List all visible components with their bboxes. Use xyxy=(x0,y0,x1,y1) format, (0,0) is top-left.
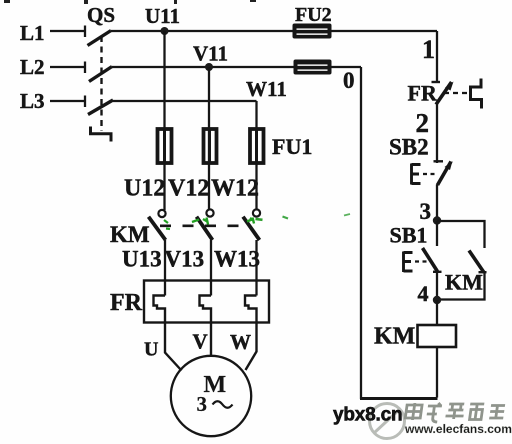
wire L2 to fuse and node 0 corner xyxy=(112,66,361,68)
FR heater element 2 xyxy=(200,296,212,357)
FR trip lever symbol xyxy=(471,79,482,109)
wire SB1 to node 4 xyxy=(436,272,438,301)
KM main contact 3 fixed circle xyxy=(253,209,260,216)
svg-text:3: 3 xyxy=(197,392,208,416)
svg-text:KM: KM xyxy=(374,324,415,350)
FR top terminal tick xyxy=(432,81,441,83)
svg-text:FU1: FU1 xyxy=(272,134,312,159)
KM main contact 3 blade xyxy=(243,217,260,240)
svg-text:2: 2 xyxy=(416,108,430,138)
watermark elecfans logo circle xyxy=(370,404,405,439)
svg-text:FU2: FU2 xyxy=(295,4,332,26)
motor tilde mark xyxy=(213,401,233,408)
fuse FU1 pole 1 body xyxy=(158,129,172,163)
FR NC contact blade xyxy=(436,82,452,105)
svg-text:QS: QS xyxy=(87,3,115,27)
QS pole 1 fixed terminal tick xyxy=(84,26,86,38)
SB2 actuator E xyxy=(412,164,421,185)
coil KM body xyxy=(418,325,457,347)
FR heater element 3 xyxy=(245,296,257,371)
SB1 NO blade xyxy=(423,248,438,272)
SB2 dashed link xyxy=(423,173,436,175)
svg-text:V11: V11 xyxy=(193,42,228,66)
wire KM aux to node 4 xyxy=(437,272,485,300)
top edge crop artifacts xyxy=(4,0,256,4)
svg-text:0: 0 xyxy=(343,68,355,93)
svg-text:1: 1 xyxy=(422,35,435,64)
QS pole 3 blade xyxy=(88,100,113,115)
wire loop left vertical (node 0) xyxy=(360,67,362,399)
wire L3 incoming xyxy=(50,100,84,102)
svg-text:L3: L3 xyxy=(20,89,45,113)
svg-text:L1: L1 xyxy=(20,21,45,45)
QS linkage dashed line xyxy=(100,36,102,131)
svg-text:FR: FR xyxy=(408,81,438,106)
FR contact dashed link xyxy=(444,92,468,94)
fuse FU2 pole 2 body xyxy=(294,60,332,75)
KM main contact 2 fixed circle xyxy=(206,209,213,216)
SB1 bottom terminal tick xyxy=(433,271,442,273)
svg-text:FR: FR xyxy=(110,290,143,316)
svg-text:U12: U12 xyxy=(124,176,165,202)
wire U column upper xyxy=(163,31,165,210)
fuse FU2 pole 1 body xyxy=(293,24,332,39)
svg-text:V: V xyxy=(193,330,208,354)
wire control right column top xyxy=(436,31,438,82)
watermark chinese glyphs xyxy=(405,403,506,422)
FR blade arrow tip xyxy=(445,82,454,91)
svg-text:U: U xyxy=(144,339,158,361)
wire L1 to FU2 and node 1 corner xyxy=(111,30,437,32)
svg-text:V12: V12 xyxy=(168,176,209,202)
wire branch node3 to KM aux xyxy=(437,221,485,248)
SB1 dashed link xyxy=(415,260,428,262)
wire U column mid xyxy=(164,240,166,296)
svg-text:SB1: SB1 xyxy=(390,223,428,248)
QS pole 1 blade xyxy=(88,31,112,46)
wire L1 incoming xyxy=(50,30,84,32)
FR outer box xyxy=(144,281,269,323)
fuse FU1 pole 2 body xyxy=(204,129,217,163)
svg-text:W13: W13 xyxy=(214,247,260,272)
svg-text:KM: KM xyxy=(445,270,483,295)
SB2 NC blade xyxy=(438,162,452,186)
wire L3 to W column corner xyxy=(113,100,257,102)
wire W column upper xyxy=(255,101,257,210)
svg-text:SB2: SB2 xyxy=(389,135,429,160)
KM main contact 1 fixed circle xyxy=(158,210,165,217)
svg-text:3: 3 xyxy=(420,199,432,224)
wire V column upper xyxy=(208,67,210,210)
QS pole 2 blade xyxy=(89,67,112,82)
green smudge under contact 3 blade xyxy=(256,218,263,221)
QS pole 2 fixed terminal tick xyxy=(84,62,86,74)
KM linkage dashed black xyxy=(160,225,241,228)
wire between FR contact and SB2 xyxy=(436,104,438,164)
svg-text:ybx8.cn: ybx8.cn xyxy=(333,405,402,426)
svg-text:4: 4 xyxy=(418,281,429,306)
junction V11 xyxy=(205,63,213,71)
svg-text:www.elecfans.com: www.elecfans.com xyxy=(404,422,512,436)
wire SB2 to node 3 xyxy=(436,185,438,222)
wire node 4 to coil xyxy=(436,300,438,325)
svg-text:U13: U13 xyxy=(122,247,162,272)
svg-text:KM: KM xyxy=(110,222,150,247)
wire coil to bottom xyxy=(436,347,438,398)
motor M circle xyxy=(171,356,251,436)
wire W column mid xyxy=(255,240,257,296)
svg-text:W11: W11 xyxy=(246,77,287,101)
svg-text:L2: L2 xyxy=(20,55,45,79)
green smudge left of control loop xyxy=(344,214,350,216)
wire L2 incoming xyxy=(50,66,84,68)
wire loop bottom xyxy=(360,397,438,400)
svg-text:U11: U11 xyxy=(145,4,180,28)
wire node3 to SB1 xyxy=(436,221,438,246)
svg-text:V13: V13 xyxy=(165,247,205,272)
KM main contact 1 blade xyxy=(149,217,166,240)
green watermark smudge on contact 1 xyxy=(164,220,170,229)
QS handle bracket xyxy=(91,127,112,142)
SB2 blade arrow tip xyxy=(445,161,453,170)
junction U11 xyxy=(161,27,169,35)
green watermark smudge on contact 2 xyxy=(192,218,208,225)
svg-text:W: W xyxy=(230,330,251,354)
QS pole 3 fixed terminal tick xyxy=(84,96,86,108)
junction node 3 xyxy=(433,216,441,224)
KM main contact 2 blade xyxy=(197,217,213,240)
green dash right of contact 3 xyxy=(283,217,289,219)
wire V column mid xyxy=(210,240,212,296)
fuse FU1 pole 3 body xyxy=(250,129,264,163)
SB1 actuator E xyxy=(404,252,413,273)
KM aux bottom terminal tick xyxy=(479,271,487,273)
junction node 4 xyxy=(433,296,441,304)
contactor KM aux contact blade xyxy=(469,251,484,273)
svg-text:W12: W12 xyxy=(211,176,259,202)
green watermark smudge on contact 3 xyxy=(247,218,254,224)
FR heater element 1 xyxy=(154,296,182,371)
SB2 top terminal tick xyxy=(434,160,444,162)
